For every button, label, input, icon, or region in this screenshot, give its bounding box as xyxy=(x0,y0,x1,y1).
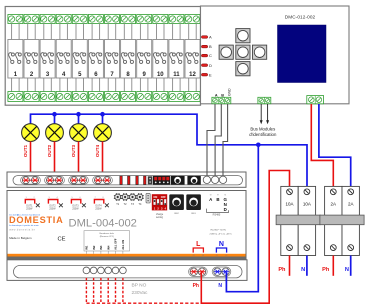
svg-text:Ph: Ph xyxy=(322,267,330,273)
svg-text:N: N xyxy=(219,241,224,248)
circuit breaker CB2 pole 2 xyxy=(342,186,359,255)
input tick ALL ON xyxy=(122,251,124,254)
fuse terminal block 12 xyxy=(185,40,200,79)
svg-text:12: 12 xyxy=(189,72,196,78)
button up xyxy=(236,29,250,43)
svg-text:IN3: IN3 xyxy=(99,245,103,250)
svg-text:OFF: OFF xyxy=(161,195,167,199)
bus modules label xyxy=(249,127,277,138)
input terminal ALL OFF xyxy=(112,267,119,274)
wire lamp 4 neutral stub xyxy=(102,114,104,124)
terminal block power xyxy=(307,96,324,104)
fuse terminal block 2 xyxy=(24,40,39,79)
node neutral junction xyxy=(256,143,261,148)
wire stubs top of fuse block 10 xyxy=(157,24,165,40)
input tick ALL OFF xyxy=(115,251,117,254)
trimmer T2 xyxy=(121,193,129,206)
svg-text:97: 97 xyxy=(217,195,219,197)
svg-text:setting: setting xyxy=(156,216,164,219)
wire CB1 neutral supply xyxy=(306,256,308,276)
wire push-button IN1 dashed xyxy=(85,278,87,303)
svg-text:N: N xyxy=(345,267,349,273)
svg-text:10: 10 xyxy=(157,72,164,78)
input terminal IN1 xyxy=(83,267,90,274)
wire OUT2 phase xyxy=(54,142,56,181)
terminal block bottom row screws 11 xyxy=(169,92,184,102)
jumper JP1 (photo view) xyxy=(148,176,153,184)
terminal block top row screws 3 xyxy=(40,15,55,24)
terminal block top row screws 1 xyxy=(8,15,23,24)
svg-text:Made in Belgium: Made in Belgium xyxy=(9,236,32,240)
N terminal label xyxy=(216,241,229,257)
L input terminal pair xyxy=(189,267,208,276)
button right xyxy=(253,45,267,59)
wire push-button IN2 dashed xyxy=(93,278,95,303)
svg-text:Ph: Ph xyxy=(278,267,286,273)
wire stubs bottom of fuse block 8 xyxy=(124,78,132,92)
terminal block top row screws 4 xyxy=(56,15,71,24)
wire stubs bottom of fuse block 11 xyxy=(173,78,181,92)
power rating text xyxy=(210,229,233,235)
svg-text:la domotique à portée de main: la domotique à portée de main xyxy=(9,224,39,227)
svg-text:CE: CE xyxy=(58,237,66,243)
fuse terminal block 1 xyxy=(8,40,23,79)
wire lamp 3 neutral stub xyxy=(78,114,80,124)
lamp OUT3 xyxy=(70,124,88,142)
terminal block bottom row screws 3 xyxy=(40,92,55,102)
terminal block bottom row screws 10 xyxy=(153,92,168,102)
dark bottom edge of face xyxy=(7,257,246,260)
terminal block bottom row screws 5 xyxy=(72,92,87,102)
svg-text:230Vac: 230Vac xyxy=(132,290,149,296)
trimmer T3 xyxy=(129,193,137,206)
trimmer T4 xyxy=(136,193,144,206)
svg-text:Bandeaux leds: Bandeaux leds xyxy=(99,233,114,235)
wire stubs bottom of fuse block 7 xyxy=(108,78,116,92)
terminal block bottom row screws 9 xyxy=(137,92,152,102)
LED A xyxy=(201,35,212,40)
label BP NO 230Vac xyxy=(132,283,149,296)
terminal block bottom row screws 12 xyxy=(185,92,200,102)
fuse terminal block 6 xyxy=(88,40,103,79)
svg-text:2,6W ta +5°C to +45°C: 2,6W ta +5°C to +45°C xyxy=(210,233,233,236)
wire stubs top of fuse block 3 xyxy=(44,24,52,40)
wire push-button ALL ON dashed xyxy=(122,278,124,303)
svg-text:DMC-012-002: DMC-012-002 xyxy=(285,15,316,20)
svg-text:Bus Modules: Bus Modules xyxy=(250,127,275,132)
wire CB2 phase supply xyxy=(332,256,334,276)
relay output terminal pair 2 xyxy=(45,176,65,184)
fuse terminal block 9 xyxy=(137,40,152,79)
LCD display xyxy=(278,25,327,83)
output unit OUT1 symbol xyxy=(25,197,39,211)
LED D xyxy=(201,63,212,68)
svg-text:DML-004-002: DML-004-002 xyxy=(69,218,137,230)
svg-text:D: D xyxy=(209,63,212,68)
svg-text:250W: 250W xyxy=(49,207,56,210)
wire stubs bottom of fuse block 6 xyxy=(92,78,100,92)
circuit breaker CB1 toggle xyxy=(276,215,320,225)
wire push-button ALL OFF dashed xyxy=(115,278,117,303)
node junction lamp 2 xyxy=(52,112,57,117)
terminal block top row screws 5 xyxy=(72,15,87,24)
N input terminal pair xyxy=(212,267,231,276)
svg-text:250W: 250W xyxy=(26,207,33,210)
circuit breaker CB2 toggle xyxy=(320,215,364,225)
wire stubs bottom of fuse block 12 xyxy=(189,78,197,92)
wire stubs bottom of fuse block 1 xyxy=(12,78,20,92)
wire DMC B to DML B xyxy=(215,104,221,176)
node junction lamp 3 xyxy=(76,112,81,117)
DML bottom housing xyxy=(7,260,247,281)
svg-text:C: C xyxy=(209,53,212,58)
Domestia logo xyxy=(9,213,64,232)
svg-text:92: 92 xyxy=(224,195,226,197)
wire stubs top of fuse block 11 xyxy=(173,24,181,40)
svg-text:www.domestia.be: www.domestia.be xyxy=(9,229,35,232)
input tick IN3 xyxy=(100,251,102,254)
svg-text:ON: ON xyxy=(153,195,157,199)
circuit breaker CB1 pole 2 xyxy=(298,186,315,255)
terminal block bottom row screws 7 xyxy=(105,92,120,102)
relay output terminal pair 4 xyxy=(93,176,113,184)
wire stubs bottom of fuse block 10 xyxy=(157,78,165,92)
svg-text:2A: 2A xyxy=(331,202,337,207)
input terminal IN3 xyxy=(98,267,105,274)
terminal block top row screws 10 xyxy=(153,15,168,24)
svg-text:IN1: IN1 xyxy=(85,245,89,250)
terminal block top row screws 7 xyxy=(105,15,120,24)
LED B xyxy=(201,44,212,49)
terminal block top row screws 8 xyxy=(121,15,136,24)
DML top housing xyxy=(7,172,246,187)
wire neutral to DML N xyxy=(226,145,258,292)
output unit OUT3 symbol xyxy=(71,197,85,211)
terminal A B GND labels xyxy=(215,88,231,98)
wire stubs top of fuse block 8 xyxy=(124,24,132,40)
fuse terminal block 3 xyxy=(40,40,55,79)
input tick IN1 xyxy=(85,251,87,254)
DIP switch (photo view) xyxy=(153,176,170,185)
svg-text:BP NO: BP NO xyxy=(132,283,147,289)
input terminal IN2 xyxy=(90,267,97,274)
wire DMC power neutral to breaker CB2 xyxy=(319,104,351,186)
DML face box xyxy=(7,191,246,260)
button left xyxy=(219,45,233,59)
terminal block bottom row screws 1 xyxy=(8,92,23,102)
LED C xyxy=(201,53,212,58)
svg-text:2A: 2A xyxy=(348,202,354,207)
lamp OUT2 xyxy=(46,124,64,142)
wire DMC power phase to breaker CB2 xyxy=(311,104,333,186)
button RS2 (photo view) xyxy=(171,176,185,185)
button RS1 (photo view) xyxy=(187,176,200,185)
wire lamp 2 neutral stub xyxy=(54,114,56,124)
wire stubs top of fuse block 2 xyxy=(28,24,36,40)
bus arrow 1 xyxy=(260,104,263,124)
terminal block bottom row screws 4 xyxy=(56,92,71,102)
svg-text:RS485: RS485 xyxy=(213,214,221,217)
wire stubs top of fuse block 5 xyxy=(76,24,84,40)
svg-text:11: 11 xyxy=(173,72,180,78)
wire CB1 phase supply xyxy=(289,256,291,276)
node junction lamp 4 xyxy=(100,112,105,117)
terminal strip housing box xyxy=(5,7,200,106)
relay output terminal pair 1 xyxy=(21,176,41,184)
wire stubs bottom of fuse block 5 xyxy=(76,78,84,92)
terminal block bottom row screws 6 xyxy=(88,92,103,102)
svg-text:GND: GND xyxy=(227,88,231,96)
svg-text:ALL OFF: ALL OFF xyxy=(114,238,118,250)
wire push-button IN4 dashed xyxy=(107,278,109,303)
wire OUT1 phase xyxy=(30,142,32,181)
fuse terminal block 7 xyxy=(105,40,120,79)
wire DMC GND to DML GND xyxy=(223,104,228,176)
fuse terminal block 8 xyxy=(121,40,136,79)
relay output terminal pair 3 xyxy=(69,176,89,184)
bus arrow 2 xyxy=(266,104,269,124)
terminal block top row screws 11 xyxy=(169,15,184,24)
svg-text:IN2: IN2 xyxy=(92,245,96,250)
terminal block A/B/GND xyxy=(212,97,231,103)
svg-text:d'identification: d'identification xyxy=(249,132,277,137)
svg-text:N: N xyxy=(218,283,222,289)
output unit OUT2 symbol xyxy=(48,197,62,211)
wire stubs top of fuse block 6 xyxy=(92,24,100,40)
input terminal ALL ON xyxy=(120,267,127,274)
svg-text:IN 230V~ 50 Hz: IN 230V~ 50 Hz xyxy=(211,229,227,231)
orange band xyxy=(8,254,246,257)
LED E xyxy=(201,72,212,77)
DMC-012-002 module box xyxy=(201,6,350,104)
charge setting label xyxy=(156,213,164,219)
lamp OUT1 xyxy=(22,124,40,142)
wire stubs top of fuse block 4 xyxy=(60,24,68,40)
wire push-buttons dashed bus xyxy=(86,302,201,304)
terminal block bus xyxy=(258,97,271,103)
svg-text:Ph: Ph xyxy=(193,283,199,289)
svg-text:250W: 250W xyxy=(95,207,102,210)
svg-text:B: B xyxy=(209,44,212,49)
svg-text:10A: 10A xyxy=(285,202,293,207)
svg-text:L: L xyxy=(196,241,201,248)
svg-text:OUT2: OUT2 xyxy=(47,144,52,157)
wire OUT3 phase xyxy=(78,142,80,181)
button down xyxy=(236,62,250,76)
terminal block top row screws 9 xyxy=(137,15,152,24)
terminal block bottom row screws 8 xyxy=(121,92,136,102)
terminal block top row screws 6 xyxy=(88,15,103,24)
svg-text:E: E xyxy=(209,72,212,77)
wire neutral rail to lamps xyxy=(31,114,308,186)
button RS1 (face) xyxy=(186,194,201,215)
wire push-button IN3 dashed xyxy=(100,278,102,303)
input terminal IN4 xyxy=(105,267,112,274)
terminal block top row screws 2 xyxy=(24,15,39,24)
svg-text:N: N xyxy=(301,267,305,273)
terminal block top row screws 12 xyxy=(185,15,200,24)
button center xyxy=(236,45,250,59)
input tick IN2 xyxy=(93,251,95,254)
svg-text:250W: 250W xyxy=(72,207,79,210)
L terminal label xyxy=(192,241,205,257)
trimmer T1 xyxy=(114,193,122,206)
jumper JP1 (face) xyxy=(146,193,150,203)
svg-text:(Remove JP1): (Remove JP1) xyxy=(100,236,114,238)
wire CB2 neutral supply xyxy=(350,256,352,276)
fuse terminal block 5 xyxy=(72,40,87,79)
svg-text:ALL ON: ALL ON xyxy=(121,240,125,250)
svg-text:B: B xyxy=(216,197,219,202)
wire DMC A to DML A xyxy=(207,104,215,176)
svg-text:OUT3: OUT3 xyxy=(71,144,76,157)
wire stubs bottom of fuse block 3 xyxy=(44,78,52,92)
terminal circles A B GND (photo view) xyxy=(203,176,227,183)
inputs info box xyxy=(84,231,130,251)
fuse terminal block 11 xyxy=(169,40,184,79)
DML top terminal rail xyxy=(13,176,243,185)
lamp OUT4 xyxy=(94,124,112,142)
wire stubs top of fuse block 7 xyxy=(108,24,116,40)
svg-text:D: D xyxy=(224,207,227,212)
output unit OUT4 symbol xyxy=(94,197,108,211)
DIP switch charge setting xyxy=(152,194,167,210)
wire stubs bottom of fuse block 9 xyxy=(140,78,148,92)
svg-text:A: A xyxy=(209,35,212,40)
terminal block bottom row screws 2 xyxy=(24,92,39,102)
wire phase from DML L to breaker CB1 xyxy=(201,171,289,304)
wire stubs top of fuse block 9 xyxy=(140,24,148,40)
input tick IN4 xyxy=(107,251,109,254)
button RS2 (face) xyxy=(169,194,184,215)
wire stubs bottom of fuse block 2 xyxy=(28,78,36,92)
trimmer strip (photo view) xyxy=(120,176,146,185)
circuit breaker CB2 pole 1 xyxy=(325,186,342,255)
RS485 terminal labels xyxy=(207,195,229,217)
wire OUT4 phase xyxy=(102,142,104,181)
wire stubs top of fuse block 12 xyxy=(189,24,197,40)
svg-text:IN4: IN4 xyxy=(106,245,110,250)
svg-text:OUT1: OUT1 xyxy=(23,144,28,157)
circuit breaker CB1 pole 1 xyxy=(281,186,298,255)
DML bottom terminal rail xyxy=(14,266,243,278)
svg-text:OUT4: OUT4 xyxy=(95,144,100,157)
svg-text:92: 92 xyxy=(210,195,212,197)
wire stubs top of fuse block 1 xyxy=(12,24,20,40)
wire stubs bottom of fuse block 4 xyxy=(60,78,68,92)
fuse terminal block 4 xyxy=(56,40,71,79)
fuse terminal block 10 xyxy=(153,40,168,79)
svg-text:10A: 10A xyxy=(303,202,311,207)
